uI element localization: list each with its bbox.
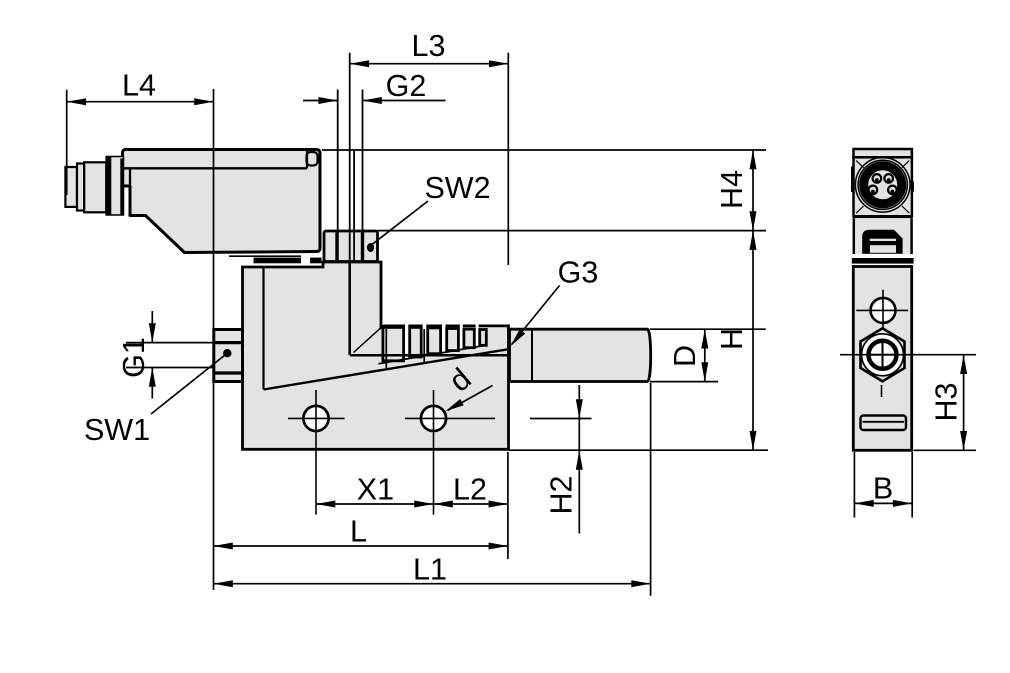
- right view top cap: [854, 149, 912, 157]
- hose barb ridge 1: [383, 327, 486, 360]
- sensor clamp plate black band: [254, 258, 322, 264]
- sensor connector lock ring: [106, 157, 123, 216]
- L3 arrows: [350, 60, 369, 67]
- D arrows: [701, 329, 708, 348]
- svg-text:L3: L3: [412, 29, 446, 63]
- H3 dimension line: [963, 355, 965, 451]
- G1 dimension lines: [151, 311, 153, 399]
- svg-text:H2: H2: [545, 476, 579, 515]
- L4 left extension line: [66, 90, 68, 195]
- svg-text:L2: L2: [453, 473, 487, 507]
- arrowheads: [67, 60, 967, 587]
- top port thread line right: [362, 90, 364, 261]
- sensor body (top-left housing): [123, 150, 321, 253]
- right view slot: [861, 416, 907, 431]
- svg-text:H4: H4: [715, 170, 749, 209]
- hex centerline horizontal: [840, 354, 976, 356]
- d arrowhead: [445, 399, 463, 411]
- L3 right extension line: [507, 53, 509, 265]
- svg-text:B: B: [873, 472, 893, 506]
- barb thread line a: [385, 329, 387, 368]
- L3 dimension line: [350, 63, 509, 65]
- shelf edge under barb: [350, 354, 509, 357]
- svg-text:SW1: SW1: [84, 413, 150, 447]
- hose barb ridge 4: [447, 329, 459, 351]
- H2 dimension line: [578, 385, 580, 534]
- right view white strip: [852, 254, 914, 258]
- top port bore line: [353, 151, 355, 261]
- svg-text:H3: H3: [930, 383, 964, 422]
- hose barb ridge 6: [480, 330, 487, 346]
- top port axis line: [349, 53, 351, 262]
- block bottom extension line: [509, 449, 769, 451]
- connector outer ring thin: [855, 158, 910, 213]
- H4 dimension line: [752, 150, 754, 231]
- G2 dimension tails: [303, 100, 446, 102]
- right view cross hole: [856, 290, 908, 330]
- barb thread line b: [423, 329, 425, 362]
- svg-text:H: H: [715, 328, 749, 350]
- hose barb ridge 5: [464, 329, 474, 348]
- block right edge lower extension: [507, 452, 509, 559]
- connector pin 1: [873, 174, 882, 183]
- connector corner chamfers: [856, 161, 909, 214]
- connector bottom band: [853, 215, 912, 218]
- svg-text:L1: L1: [413, 553, 447, 587]
- G3 leader: [512, 286, 560, 345]
- right body bottom extension: [914, 449, 976, 451]
- right view connector housing: [851, 157, 914, 218]
- mounting hole 2: [405, 390, 495, 515]
- nut top extension line: [378, 230, 767, 232]
- L1 right extension: [650, 383, 652, 596]
- block inner vertical line: [262, 268, 264, 389]
- H4 arrows: [750, 150, 757, 169]
- L4 arrows: [67, 98, 86, 105]
- L1 dimension line: [214, 583, 651, 585]
- block main diagonal edge: [264, 349, 509, 389]
- L1 arrows: [214, 580, 233, 587]
- L dimension line: [214, 545, 508, 547]
- svg-text:SW2: SW2: [424, 171, 490, 205]
- hose barb ridge 2: [410, 327, 422, 357]
- cylinder bottom extension: [650, 381, 718, 383]
- barb ridge gap whites: [405, 324, 479, 359]
- connector thick ring: [864, 166, 902, 204]
- right view black band: [852, 258, 914, 264]
- sensor cable connector tip B: [77, 164, 84, 211]
- X1 L2 dimension line: [316, 503, 508, 505]
- SW2 leader: [372, 201, 428, 245]
- svg-text:L: L: [350, 515, 367, 549]
- main block body with top boss column (left view): [243, 262, 509, 449]
- hose barb ridge 3: [428, 328, 441, 354]
- H3 arrows: [960, 355, 967, 374]
- D dimension line: [704, 329, 706, 381]
- X1 arrows: [316, 501, 335, 508]
- connector side key right: [911, 182, 914, 192]
- datum extension line x=213.5: [213, 89, 215, 590]
- top port thread line left: [337, 90, 339, 261]
- svg-text:X1: X1: [357, 473, 394, 507]
- connector pin 2: [884, 174, 893, 183]
- H arrows: [750, 231, 757, 250]
- sensor cable connector tip A: [65, 167, 77, 207]
- B dimension line: [854, 502, 912, 504]
- silencer cylinder: [510, 329, 651, 381]
- L-arm left edge: [348, 263, 351, 355]
- right view body: [853, 267, 911, 451]
- G1 reference lines: [126, 343, 214, 368]
- barb corner chamfer: [354, 327, 382, 352]
- sensor top extension line: [322, 149, 766, 151]
- SW1 leader target dot: [223, 349, 231, 357]
- SW2 hex nut on top port: [324, 231, 378, 262]
- L arrows: [214, 543, 233, 550]
- SW2 leader target dot: [367, 243, 374, 252]
- svg-text:L4: L4: [122, 69, 156, 103]
- SW1 leader: [151, 355, 225, 414]
- L2 arrows: [434, 501, 453, 508]
- right view latch section: [854, 218, 912, 254]
- sensor cable connector barrel: [84, 162, 106, 212]
- H2 arrows: [576, 399, 583, 418]
- manual override arch: [862, 230, 902, 254]
- connector pin 3: [869, 186, 878, 195]
- G1 arrows: [149, 323, 156, 342]
- H dimension line: [752, 231, 754, 451]
- svg-text:G3: G3: [558, 256, 599, 290]
- hex centerline stub below: [881, 385, 883, 397]
- L4 dimension line: [67, 101, 214, 103]
- svg-text:G1: G1: [117, 337, 151, 378]
- connector pin 4: [888, 186, 897, 195]
- B extension lines: [854, 452, 912, 518]
- sensor mounting plate strip: [229, 255, 301, 257]
- G3 arrowhead: [511, 329, 526, 346]
- connector side key left: [851, 167, 854, 193]
- SW1 side fitting: [214, 330, 243, 382]
- H2 hole centre tick: [530, 418, 592, 420]
- barb taper line: [379, 345, 488, 364]
- right view hex port: [861, 328, 905, 381]
- cylinder top extension: [650, 328, 766, 330]
- mounting hole 1: [288, 390, 345, 515]
- svg-text:G2: G2: [386, 69, 427, 103]
- G2 arrows: [318, 97, 337, 104]
- d leader: [448, 386, 493, 411]
- svg-text:D: D: [668, 345, 702, 367]
- B arrows: [854, 500, 873, 507]
